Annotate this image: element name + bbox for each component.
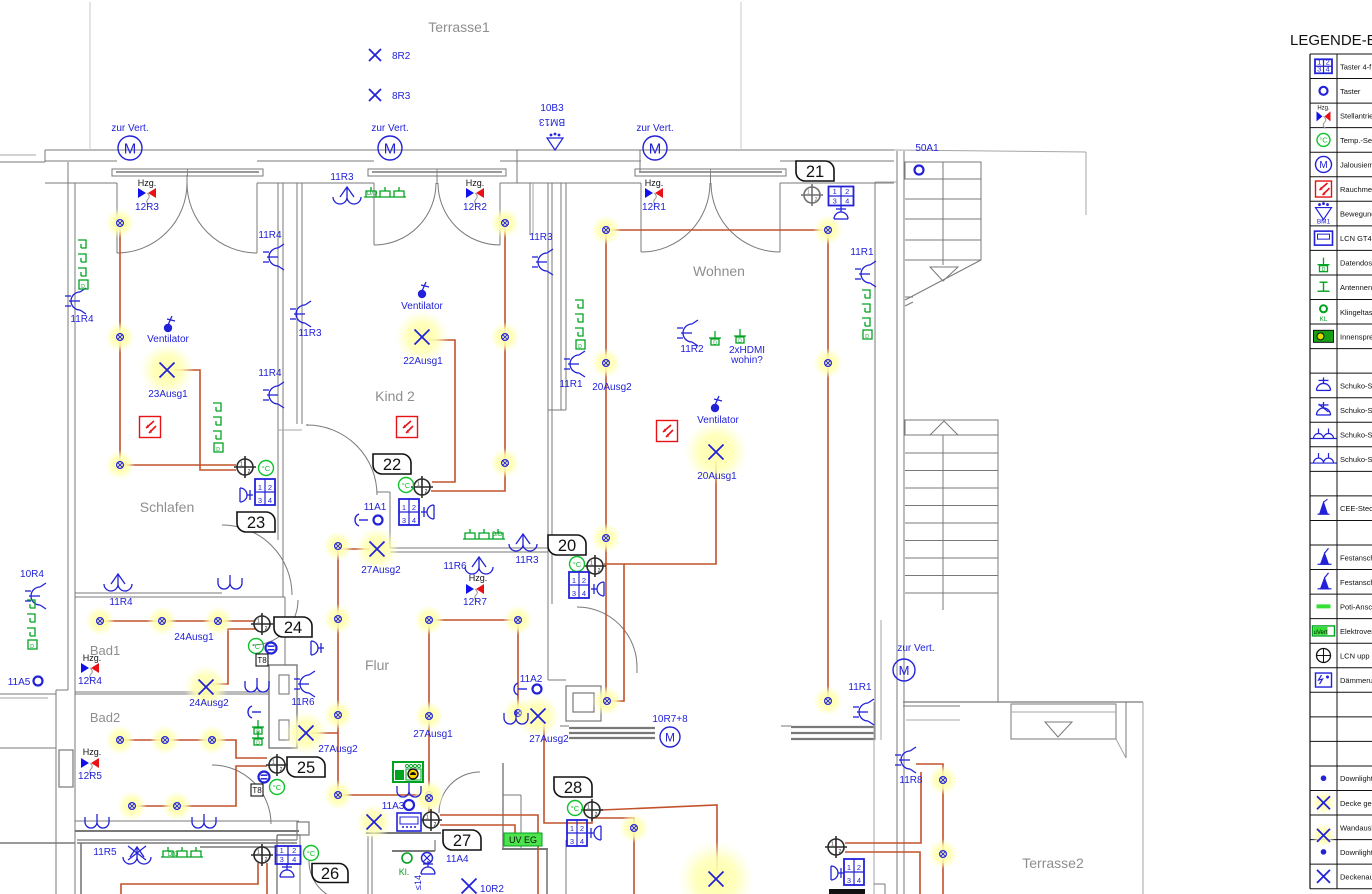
svg-text:Terrasse2: Terrasse2 xyxy=(1022,855,1084,871)
wall stubs between Kind 2 and Wohnen openings xyxy=(517,150,640,235)
svg-text:11R6: 11R6 xyxy=(291,697,315,708)
smoke detector (Wohnen) xyxy=(657,421,678,442)
wire junction 27 east B xyxy=(440,825,515,836)
room label Bad2 xyxy=(90,710,120,725)
svg-text:2: 2 xyxy=(815,197,818,203)
svg-text:3: 3 xyxy=(1317,64,1321,73)
svg-text:Hzg.: Hzg. xyxy=(83,747,102,757)
svg-text:Downlight: Downlight xyxy=(1340,848,1372,857)
outer top wall xyxy=(0,150,1086,215)
french door arcs opening 3 xyxy=(641,175,780,252)
svg-text:Schuko-St: Schuko-St xyxy=(1340,406,1372,415)
fireplace xyxy=(548,604,601,721)
svg-text:4: 4 xyxy=(582,589,586,598)
svg-text:wohin?: wohin? xyxy=(730,355,763,366)
ventilator (Wohnen) xyxy=(697,396,739,426)
svg-text:11A3: 11A3 xyxy=(382,801,405,812)
downlight at (120,740) xyxy=(105,725,135,755)
socket room 24 xyxy=(311,641,324,655)
downlight at (429,798) xyxy=(414,783,444,813)
ceiling lamp 27Ausg2 kitchen xyxy=(516,694,569,745)
svg-text:Ventilator: Ventilator xyxy=(401,301,443,312)
data outlets (Wohnen right wall) xyxy=(862,290,872,340)
junction box + temp sensor room 20 xyxy=(570,555,607,577)
label 10B3 xyxy=(540,103,564,114)
wire circuit 22Ausg1 (Kind 2 riser) xyxy=(431,223,505,491)
svg-text:Deckenau: Deckenau xyxy=(1340,872,1372,881)
wire circuit 24Ausg1 (Bad1) xyxy=(100,620,256,622)
svg-text:LCN GT4D: LCN GT4D xyxy=(1340,234,1372,243)
ceiling lamp 24Ausg2 xyxy=(184,665,229,709)
wire 24Ausg2 lamp feed xyxy=(211,629,256,684)
svg-text:Innensprech: Innensprech xyxy=(1340,332,1372,341)
svg-text:1: 1 xyxy=(402,503,406,512)
downlight at (132,806) xyxy=(117,791,147,821)
junction box + temp sensor (Schlafen) xyxy=(234,456,274,478)
svg-text:4: 4 xyxy=(292,855,296,864)
taster 4-f + socket (Schlafen) xyxy=(240,479,275,505)
svg-text:11R4: 11R4 xyxy=(258,368,282,379)
svg-text:Taster 4-f: Taster 4-f xyxy=(1340,62,1372,71)
svg-text:1: 1 xyxy=(258,483,262,492)
heating actuator 12R2 Hzg. xyxy=(463,178,487,213)
svg-text:D: D xyxy=(713,341,717,347)
data outlets (Wohnen left wall) xyxy=(575,300,585,350)
svg-text:27Ausg2: 27Ausg2 xyxy=(361,565,401,576)
svg-text:T8: T8 xyxy=(257,656,267,665)
door arc Kind 2 to Flur xyxy=(307,424,377,495)
label 27Ausg1 xyxy=(413,729,453,740)
label 24Ausg1 xyxy=(174,632,214,643)
svg-text:Klingeltast: Klingeltast xyxy=(1340,308,1372,317)
svg-text:1: 1 xyxy=(272,760,275,766)
label 20Ausg2 xyxy=(592,382,632,393)
downlight at (505,223) xyxy=(490,208,520,238)
svg-text:Kind 2: Kind 2 xyxy=(375,388,415,404)
bath luminaires (Bad1) xyxy=(218,575,269,718)
svg-text:11R8: 11R8 xyxy=(899,775,923,786)
svg-text:Terrasse1: Terrasse1 xyxy=(428,19,490,35)
svg-text:1: 1 xyxy=(570,824,574,833)
switch 11R3 (Kind 2 right wall) xyxy=(529,232,553,275)
downlight at (505,337) xyxy=(490,322,520,352)
wire room 28 to big lamp xyxy=(601,805,717,871)
data outlets (shaft) xyxy=(252,720,264,747)
downlight at (429,620) xyxy=(414,605,444,635)
wall lamp room 27 xyxy=(356,804,392,840)
svg-text:1: 1 xyxy=(417,482,420,488)
downlight at (338,546) xyxy=(323,531,353,561)
terrace lamp 8R2 xyxy=(369,49,411,62)
motor M 10R7+8 xyxy=(652,714,688,747)
svg-text:D: D xyxy=(1322,267,1326,273)
downlight at (100,621) xyxy=(85,606,115,636)
svg-text:1: 1 xyxy=(257,850,260,856)
svg-text:3: 3 xyxy=(258,496,262,505)
wire room 26 down xyxy=(266,863,268,894)
switch 11R3 (Kind 2 left wall) xyxy=(290,301,322,339)
svg-text:3: 3 xyxy=(280,855,284,864)
svg-text:2: 2 xyxy=(434,822,437,828)
downlight at (177,806) xyxy=(162,791,192,821)
terrace divider lines xyxy=(90,2,741,150)
room label Kind 2 xyxy=(375,388,415,404)
data outlet strip (room 26) xyxy=(161,847,203,858)
svg-text:Flur: Flur xyxy=(365,657,389,673)
wire stub lamp 27Ausg2 upper xyxy=(338,548,370,550)
svg-text:2: 2 xyxy=(580,824,584,833)
svg-text:27Ausg2: 27Ausg2 xyxy=(318,744,358,755)
svg-text:3: 3 xyxy=(572,589,576,598)
svg-text:10R4: 10R4 xyxy=(20,569,44,580)
svg-text:2: 2 xyxy=(425,489,428,495)
label Kl. xyxy=(399,867,410,877)
svg-text:D/D: D/D xyxy=(492,532,503,538)
svg-text:Stellantrieb: Stellantrieb xyxy=(1340,111,1372,120)
downlight at (607,701) xyxy=(592,686,622,716)
switch 11R1 (Wohnen left wall) xyxy=(559,351,585,390)
svg-text:12R5: 12R5 xyxy=(78,771,102,782)
room label Schlafen xyxy=(140,499,194,515)
svg-text:Hzg.: Hzg. xyxy=(466,178,485,188)
jalousie motor M2 zur Vert. xyxy=(371,123,408,160)
outlet 11A4 xyxy=(422,853,433,864)
luminaire (Flur) xyxy=(504,710,528,724)
svg-text:Schlafen: Schlafen xyxy=(140,499,194,515)
svg-text:2: 2 xyxy=(595,812,598,818)
room number 26 xyxy=(312,864,348,884)
svg-text:°C: °C xyxy=(252,642,261,651)
label 11A4 xyxy=(446,854,469,865)
svg-text:Rauchmeld: Rauchmeld xyxy=(1340,185,1372,194)
svg-text:12R2: 12R2 xyxy=(463,202,487,213)
svg-text:24: 24 xyxy=(284,619,302,637)
downlight at (212,740) xyxy=(197,725,227,755)
svg-text:Wohnen: Wohnen xyxy=(693,263,745,279)
svg-text:11R3: 11R3 xyxy=(330,172,354,183)
bell push Kl. xyxy=(402,853,412,863)
downlight at (338,715) xyxy=(323,700,353,730)
jalousie motor M3 zur Vert. xyxy=(636,123,673,160)
outlet 11R2 (Wohnen) xyxy=(677,320,704,355)
svg-text:Datendose: Datendose xyxy=(1340,259,1372,268)
legend table LEGENDE-E xyxy=(1290,32,1372,889)
junction box + temp sensor room 28 xyxy=(568,799,604,821)
door arc Schlafen to hall xyxy=(222,525,292,595)
svg-text:°C: °C xyxy=(1319,136,1328,145)
socket room 27 xyxy=(421,861,435,874)
wire stub to junction box 27 xyxy=(428,795,430,812)
svg-text:T8: T8 xyxy=(252,786,262,795)
svg-text:8R3: 8R3 xyxy=(392,91,411,102)
outlet 50A1 (stairwell) xyxy=(915,143,940,175)
top wall inner segments xyxy=(45,161,894,183)
svg-text:3: 3 xyxy=(402,516,406,525)
door arc Bad2 xyxy=(212,765,271,824)
svg-text:24Ausg2: 24Ausg2 xyxy=(189,698,229,709)
ceiling lamp 22Ausg1 xyxy=(395,310,449,367)
svg-text:11A5: 11A5 xyxy=(8,677,31,688)
svg-text:11R6: 11R6 xyxy=(443,561,467,572)
balcony bars left xyxy=(560,726,655,738)
downlight at (943,854) xyxy=(928,839,958,869)
downlight at (828,230) xyxy=(813,215,843,245)
svg-text:3: 3 xyxy=(570,837,574,846)
downlight at (828,363) xyxy=(813,348,843,378)
wall lamp 11R3 (Kind 2 top) xyxy=(330,172,361,204)
svg-text:Schuko-St: Schuko-St xyxy=(1340,381,1372,390)
taster 4-f + socket room 22 xyxy=(399,499,434,525)
intercom station + luminaire xyxy=(393,762,423,797)
svg-text:2: 2 xyxy=(268,483,272,492)
downlight at (606,538) xyxy=(591,523,621,553)
room number 21 xyxy=(796,161,834,181)
svg-text:11A4: 11A4 xyxy=(446,854,469,865)
wall lamp 11R6 (Flur) xyxy=(443,557,493,574)
switch 10R4 (outer left wall) xyxy=(20,569,46,609)
svg-text:2: 2 xyxy=(845,187,849,196)
wall Wohnen right / stairwell xyxy=(875,151,904,894)
svg-text:12R7: 12R7 xyxy=(463,597,487,608)
wire 22Ausg1 lamp feed xyxy=(429,340,455,482)
ceiling lamp 20Ausg1 xyxy=(684,420,748,484)
walls bottom centre rooms 26/27 xyxy=(200,763,566,894)
svg-text:°C: °C xyxy=(573,560,582,569)
svg-text:M: M xyxy=(899,663,910,678)
room label Flur xyxy=(365,657,389,673)
left outer wall xyxy=(0,162,75,894)
taster 4-f + socket room 20 xyxy=(569,572,604,598)
svg-text:2: 2 xyxy=(598,568,601,574)
door arc room 26 xyxy=(309,861,349,894)
ceiling lamp 27Ausg2 upper xyxy=(355,527,401,576)
downlight at (338,795) xyxy=(323,780,353,810)
stairs lower flight xyxy=(905,420,998,702)
wire 20Ausg1 lamp feed xyxy=(624,461,716,564)
wire 23Ausg1 lamp feed xyxy=(174,370,236,470)
junction box room 27 xyxy=(420,809,442,831)
downlight at (943,780) xyxy=(928,765,958,795)
svg-text:10R2: 10R2 xyxy=(480,884,504,894)
svg-text:D: D xyxy=(30,644,34,650)
svg-text:°C: °C xyxy=(262,464,271,473)
junction box (Terrasse2) xyxy=(825,836,847,858)
svg-text:20: 20 xyxy=(558,537,576,555)
svg-text:20Ausg1: 20Ausg1 xyxy=(697,471,737,482)
svg-text:2: 2 xyxy=(292,846,296,855)
svg-text:1: 1 xyxy=(240,462,243,468)
svg-text:24Ausg1: 24Ausg1 xyxy=(174,632,214,643)
svg-text:°C: °C xyxy=(571,804,580,813)
data outlet strip (Flur) xyxy=(463,529,505,539)
wire circuit 20Ausg2 (Wohnen left riser) xyxy=(604,230,624,701)
ventilator (Kind 2) xyxy=(401,282,443,312)
room label Terrasse1 xyxy=(428,19,490,35)
heating actuator 12R5 Hzg. xyxy=(78,747,102,782)
svg-text:1: 1 xyxy=(831,842,834,848)
motion detector BM13 xyxy=(547,133,563,150)
downlight at (338,619) xyxy=(323,604,353,634)
svg-text:D: D xyxy=(256,741,260,747)
svg-text:Wandausle: Wandausle xyxy=(1340,823,1372,832)
ceiling lamp 27Ausg2 shaft xyxy=(284,711,328,755)
svg-text:M: M xyxy=(665,731,675,745)
wall Schlafen bottom xyxy=(75,593,285,597)
svg-text:3: 3 xyxy=(833,197,837,206)
room label Wohnen xyxy=(693,263,745,279)
svg-text:D/D: D/D xyxy=(367,191,378,197)
switch 11R4 lower xyxy=(258,368,284,408)
svg-text:Hzg.: Hzg. xyxy=(645,178,664,188)
wall Kind 2 left xyxy=(278,183,302,430)
svg-text:M: M xyxy=(384,140,397,157)
terrace windows xyxy=(112,169,786,176)
data outlets (outer left wall) xyxy=(27,600,37,650)
ceiling lamp 23Ausg1 xyxy=(140,343,194,400)
heating actuator 12R1 Hzg. xyxy=(642,178,666,213)
lamp outlet 11A3 xyxy=(382,800,414,812)
switch 11R1 (Wohnen right wall) xyxy=(850,247,876,287)
lamp outlet 11A2 xyxy=(514,674,543,695)
svg-text:8R2: 8R2 xyxy=(392,51,411,62)
svg-text:11R2: 11R2 xyxy=(680,344,704,355)
wire junction Terrasse2 lower xyxy=(845,852,920,894)
svg-text:11R4: 11R4 xyxy=(258,230,282,241)
taster 4-f + socket room 26 xyxy=(276,846,301,877)
svg-text:4: 4 xyxy=(857,876,861,885)
svg-text:12R4: 12R4 xyxy=(78,676,102,687)
installation shaft xyxy=(269,665,297,748)
label 27Ausg2 shaft xyxy=(318,744,358,755)
downlight at (429,716) xyxy=(414,701,444,731)
taster 4-f + socket (Terrasse2) xyxy=(831,859,864,885)
balcony bars right xyxy=(781,726,875,739)
svg-text:1: 1 xyxy=(590,561,593,567)
svg-text:4: 4 xyxy=(412,516,416,525)
room number 23 xyxy=(237,512,275,532)
lamp outlet 11A5 xyxy=(8,677,43,689)
svg-text:2: 2 xyxy=(265,626,268,632)
room label Terrasse2 xyxy=(1022,855,1084,871)
bath luminaires (Bad2) xyxy=(85,814,216,828)
wall lamp 11R4 (Bad1) xyxy=(104,574,133,608)
svg-text:11A1: 11A1 xyxy=(364,502,387,513)
wire lamp 27Ausg2 kitchen to room 28 xyxy=(544,723,592,823)
wall hall 24 xyxy=(284,597,286,665)
room number 24 xyxy=(274,617,312,637)
svg-text:3: 3 xyxy=(847,876,851,885)
svg-text:11A2: 11A2 xyxy=(520,674,543,685)
downlight at (828,701) xyxy=(813,686,843,716)
switch 11R4 (Schlafen left wall) xyxy=(65,288,94,325)
svg-text:CEE-Steck: CEE-Steck xyxy=(1340,504,1372,513)
HDMI outlets xyxy=(709,329,746,347)
svg-text:23Ausg1: 23Ausg1 xyxy=(148,389,188,400)
svg-text:Antennendo: Antennendo xyxy=(1340,283,1372,292)
label 2xHDMI wohin? xyxy=(729,345,765,366)
svg-text:Schuko-St: Schuko-St xyxy=(1340,455,1372,464)
svg-text:21: 21 xyxy=(806,163,824,181)
svg-text:50A1: 50A1 xyxy=(915,143,939,154)
svg-text:uVert: uVert xyxy=(1313,630,1327,636)
svg-text:D/D: D/D xyxy=(168,852,179,858)
svg-text:1: 1 xyxy=(587,805,590,811)
svg-text:1: 1 xyxy=(833,187,837,196)
svg-text:11R4: 11R4 xyxy=(70,314,94,325)
door arc hall 24 xyxy=(253,600,298,645)
svg-text:28: 28 xyxy=(564,779,582,797)
svg-text:2: 2 xyxy=(582,576,586,585)
svg-text:11R1: 11R1 xyxy=(848,682,872,693)
svg-text:BM13: BM13 xyxy=(539,116,566,127)
junction box + taster 4-f + socket room 21 xyxy=(801,184,854,219)
svg-text:25: 25 xyxy=(297,759,315,777)
room number 28 xyxy=(554,777,592,797)
wire stub lamp 27Ausg2 shaft xyxy=(311,732,338,734)
svg-text:26: 26 xyxy=(321,865,339,883)
label BM13 (mirrored) xyxy=(539,116,566,127)
svg-text:UV EG: UV EG xyxy=(509,835,537,845)
room label Bad1 xyxy=(90,643,120,658)
svg-text:°C: °C xyxy=(273,783,282,792)
wire circuit 25 (Bad2 row 2) xyxy=(131,766,267,806)
svg-text:Downlight: Downlight xyxy=(1340,774,1372,783)
wire circuit 25 (Bad2 row 1) xyxy=(119,740,267,758)
junction box cluster room 25 xyxy=(251,754,288,796)
downlight at (606,363) xyxy=(591,348,621,378)
svg-text:2: 2 xyxy=(857,863,861,872)
svg-text:1: 1 xyxy=(807,190,810,196)
svg-text:1: 1 xyxy=(426,815,429,821)
svg-text:Decke ge: Decke ge xyxy=(1340,799,1372,808)
stairs upper flight xyxy=(905,162,981,306)
french door arcs opening 1 xyxy=(117,175,257,253)
svg-text:°C: °C xyxy=(307,849,316,858)
svg-text:1: 1 xyxy=(847,863,851,872)
svg-text:27: 27 xyxy=(453,832,471,850)
wall Kind 2 bottom xyxy=(377,492,548,552)
wall lamp 11R3 (Flur) xyxy=(509,534,539,566)
svg-text:11R3: 11R3 xyxy=(515,555,539,566)
svg-text:4: 4 xyxy=(580,837,584,846)
svg-text:Jalousiemo: Jalousiemo xyxy=(1340,160,1372,169)
downlight at (634,828) xyxy=(619,813,649,843)
svg-text:D: D xyxy=(578,344,582,350)
downlight at (505,463) xyxy=(490,448,520,478)
room number 22 xyxy=(373,454,411,474)
svg-text:4: 4 xyxy=(1326,64,1330,73)
svg-text:22: 22 xyxy=(383,456,401,474)
jalousie motor M1 zur Vert. xyxy=(111,123,148,160)
downlight at (120,465) xyxy=(105,450,135,480)
room number 20 xyxy=(548,535,586,555)
downlight at (162,621) xyxy=(147,606,177,636)
svg-text:20Ausg2: 20Ausg2 xyxy=(592,382,632,393)
downlight at (165,740) xyxy=(150,725,180,755)
svg-text:zur Vert.: zur Vert. xyxy=(371,123,408,134)
svg-text:12R3: 12R3 xyxy=(135,202,159,213)
wall Schlafen right xyxy=(278,183,283,597)
data outlets (Schlafen right wall) xyxy=(213,403,223,453)
junction box + temp sensor room 26 xyxy=(251,844,319,866)
svg-text:Ventilator: Ventilator xyxy=(697,415,739,426)
downlight at (120,223) xyxy=(105,208,135,238)
svg-text:2: 2 xyxy=(248,469,251,475)
heating actuator 12R3 Hzg. xyxy=(135,178,159,213)
svg-text:Hzg.: Hzg. xyxy=(138,178,157,188)
svg-text:Temp.-Sen: Temp.-Sen xyxy=(1340,136,1372,145)
ceiling lamp room 28 xyxy=(678,841,754,894)
